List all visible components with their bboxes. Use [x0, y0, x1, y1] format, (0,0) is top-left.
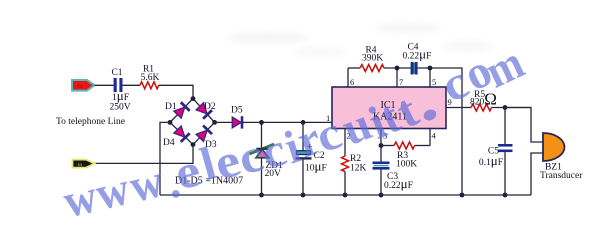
svg-text:in: in: [78, 162, 83, 168]
pin 7 stub: [396, 68, 398, 87]
node ZD1 bottom: [259, 193, 264, 198]
svg-text:D4: D4: [163, 138, 175, 148]
wire R1 to bridge top: [159, 85, 193, 98]
wire bridge left to bottom rail: [160, 122, 170, 195]
wire C3 top lead: [380, 146, 382, 162]
node R2 bottom: [343, 193, 348, 198]
wire bridge right to D5: [215, 121, 233, 123]
terminal J2 "in" (telephone line bottom): [73, 160, 95, 168]
svg-text:D1: D1: [165, 102, 177, 112]
pin 6 stub: [347, 68, 349, 87]
capacitor C1: [109, 68, 130, 113]
wire R5 to node: [492, 107, 532, 109]
resistor R2: [342, 154, 367, 174]
wire C1 to R1: [123, 84, 141, 86]
diode D4: [173, 125, 190, 142]
svg-text:12K: 12K: [350, 164, 367, 174]
resistor R3: [394, 142, 417, 170]
watermark artifacts: [228, 22, 494, 57]
node C5 bottom: [503, 193, 508, 198]
svg-text:in: in: [77, 84, 83, 90]
node C2 bottom: [301, 193, 306, 198]
node pin3 junction: [379, 143, 384, 148]
node ZD1 top: [259, 120, 264, 125]
wire bottom rail: [160, 194, 531, 196]
diode D5: [231, 106, 243, 129]
wire bridge edges: [170, 99, 215, 145]
wire C3 bottom lead: [380, 170, 382, 195]
watermark www.eleccircuit.com: [59, 35, 532, 227]
wire terminal to C1: [95, 84, 114, 86]
wire C2 top lead: [302, 122, 304, 150]
node pin5 top: [428, 66, 433, 71]
resistor R4: [360, 46, 384, 72]
wire D5 to IC pin 1: [243, 121, 332, 123]
node C3 bottom: [379, 193, 384, 198]
svg-text:5: 5: [432, 77, 436, 87]
svg-text:C1: C1: [111, 68, 122, 78]
diode D2: [195, 102, 212, 119]
node pin7 top: [395, 66, 400, 71]
svg-text:5.6K: 5.6K: [141, 73, 160, 83]
pin 3 stub: [380, 129, 382, 146]
wire ZD1 bottom lead: [261, 158, 263, 195]
svg-text:6: 6: [350, 77, 354, 87]
capacitor C2 (electrolytic): [296, 142, 327, 174]
IC IC1 KA2411: [332, 87, 446, 129]
svg-text:R2: R2: [350, 154, 361, 164]
node bridge bottom: [191, 142, 196, 147]
terminal J1 "in" (telephone line top): [72, 80, 95, 91]
wire pin3 to R3: [381, 145, 394, 147]
wire R2 bottom: [344, 172, 346, 196]
svg-text:250V: 250V: [109, 103, 130, 113]
pin 2 stub: [344, 129, 346, 157]
wire C2 bottom lead: [302, 160, 304, 195]
wire R3 to pin4: [415, 145, 431, 147]
transducer BZ1: [540, 133, 583, 181]
svg-text:100K: 100K: [396, 160, 417, 170]
zener diode ZD1: [250, 144, 284, 179]
resistor R5: [470, 90, 497, 112]
wire bridge bottom to terminal J2: [95, 145, 194, 164]
diode D1: [173, 102, 190, 119]
wire C5 top lead: [504, 108, 506, 145]
node R5 output: [503, 105, 508, 110]
capacitor C4: [403, 43, 432, 75]
wire C4 to corner and down to bottom rail: [418, 68, 462, 195]
node bridge top: [191, 96, 196, 101]
wire BZ1 bottom lead to bottom rail: [531, 153, 543, 195]
svg-text:Transducer: Transducer: [540, 171, 583, 181]
node bridge left: [168, 120, 173, 125]
wire R4 to C4: [384, 67, 411, 69]
capacitor C5: [479, 144, 513, 168]
pin 4 stub: [429, 129, 431, 146]
node C2 top: [301, 120, 306, 125]
svg-text:D5: D5: [231, 106, 243, 116]
svg-text:To telephone Line: To telephone Line: [56, 117, 125, 127]
svg-text:390K: 390K: [362, 54, 383, 64]
node right riser bottom: [460, 193, 465, 198]
wire ZD1 top lead: [261, 122, 263, 149]
wire top pin6 to R4: [348, 67, 360, 69]
wire node to BZ1 top lead: [505, 108, 543, 143]
wire C5 bottom lead: [504, 152, 506, 195]
resistor R1: [140, 65, 160, 89]
capacitor C3: [373, 162, 413, 192]
pin 9 wire: [446, 107, 471, 109]
node bridge right: [212, 120, 217, 125]
diode D3: [195, 126, 212, 143]
svg-text:D2: D2: [204, 102, 216, 112]
pin 5 stub: [429, 68, 431, 87]
